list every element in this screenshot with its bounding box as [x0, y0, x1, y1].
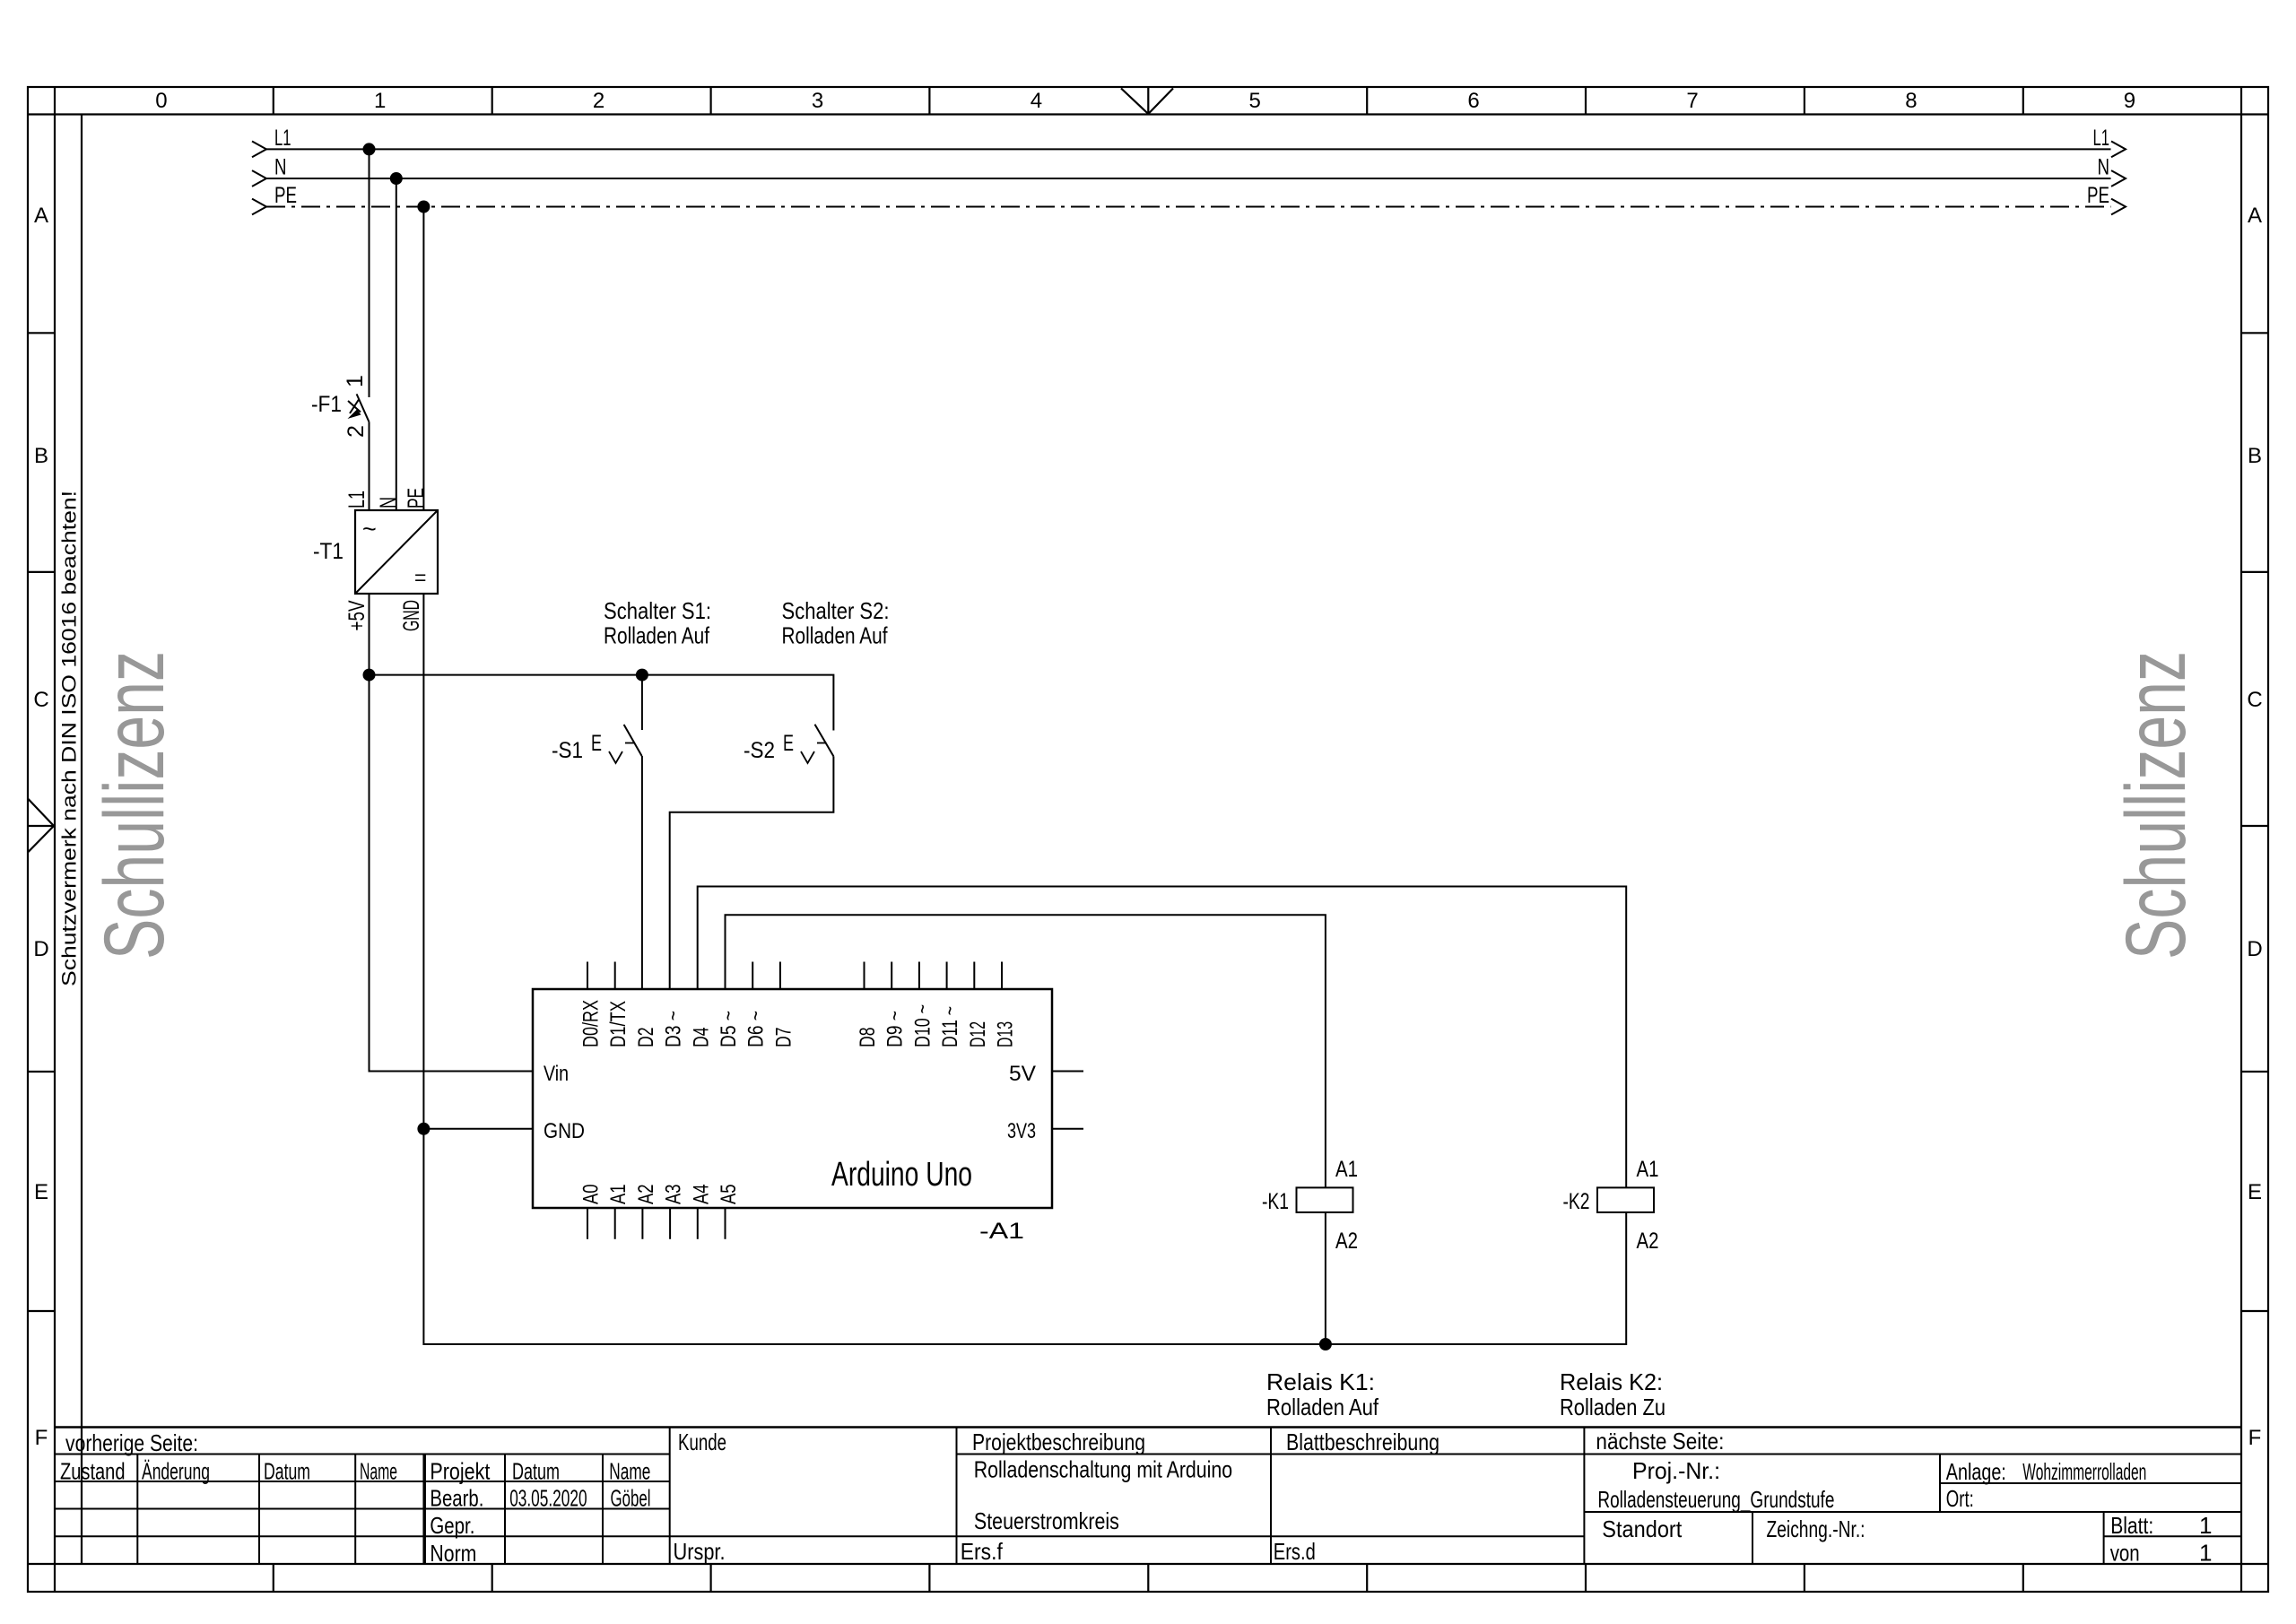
svg-text:1: 1 [2199, 1540, 2212, 1567]
svg-text:Rolladen Auf: Rolladen Auf [1266, 1394, 1379, 1420]
svg-text:1: 1 [2199, 1512, 2212, 1539]
svg-text:+5V: +5V [344, 600, 370, 630]
svg-text:E: E [34, 1180, 48, 1204]
svg-text:1: 1 [343, 375, 368, 387]
svg-text:A0: A0 [579, 1185, 604, 1205]
wire S1 to D2 [641, 756, 643, 989]
svg-text:2: 2 [593, 89, 604, 113]
svg-text:C: C [33, 688, 48, 712]
svg-text:-S2: -S2 [744, 738, 775, 763]
svg-text:D4: D4 [689, 1028, 713, 1048]
svg-text:D5 ~: D5 ~ [717, 1011, 741, 1047]
svg-text:D: D [2247, 937, 2262, 961]
annotation Schalter S2 [782, 597, 890, 649]
svg-text:E: E [591, 731, 602, 756]
svg-text:Relais K2:: Relais K2: [1560, 1368, 1663, 1395]
fuse F1 [311, 375, 369, 438]
svg-text:E: E [783, 731, 794, 756]
svg-text:Göbel: Göbel [611, 1485, 651, 1512]
svg-text:PE: PE [404, 488, 429, 508]
svg-text:A4: A4 [689, 1185, 713, 1205]
svg-text:Urspr.: Urspr. [674, 1538, 726, 1565]
svg-text:D11 ~: D11 ~ [938, 1006, 962, 1047]
junction above S1 [636, 669, 648, 682]
svg-text:5V: 5V [1009, 1062, 1036, 1086]
svg-text:Bearb.: Bearb. [430, 1485, 483, 1512]
svg-text:D1/TX: D1/TX [606, 1001, 631, 1047]
svg-text:A2: A2 [1335, 1229, 1358, 1254]
svg-text:A3: A3 [662, 1185, 686, 1205]
svg-text:Zeichng.-Nr.:: Zeichng.-Nr.: [1767, 1515, 1865, 1542]
svg-text:Projekt: Projekt [430, 1458, 491, 1485]
annotation Relais K2 [1560, 1368, 1665, 1420]
net L1 [252, 126, 2126, 157]
svg-text:=: = [414, 566, 426, 589]
svg-text:-T1: -T1 [313, 539, 344, 564]
wire L1 to F1 [369, 149, 370, 397]
svg-text:A5: A5 [717, 1185, 741, 1205]
wire +5V from T1 [369, 594, 370, 675]
wire D5 to K1 [726, 915, 1326, 1187]
svg-text:Rolladenschaltung mit Arduino: Rolladenschaltung mit Arduino [974, 1456, 1233, 1483]
svg-text:Wohzimmerrolladen: Wohzimmerrolladen [2022, 1458, 2146, 1485]
svg-text:Proj.-Nr.:: Proj.-Nr.: [1632, 1457, 1720, 1484]
svg-text:8: 8 [1905, 89, 1917, 113]
svg-text:Rolladen Auf: Rolladen Auf [604, 622, 710, 649]
wire N to T1 pin N [376, 178, 401, 510]
svg-text:7: 7 [1686, 89, 1698, 113]
svg-text:Datum: Datum [512, 1458, 560, 1485]
svg-text:D8: D8 [856, 1028, 880, 1048]
svg-text:Änderung: Änderung [142, 1458, 210, 1485]
svg-text:B: B [2248, 444, 2262, 468]
junction +5V [363, 669, 376, 682]
svg-text:03.05.2020: 03.05.2020 [509, 1485, 587, 1512]
svg-text:Schalter S1:: Schalter S1: [604, 597, 711, 624]
junction N [390, 172, 403, 185]
svg-text:A1: A1 [1335, 1157, 1358, 1182]
junction L1 [363, 143, 376, 155]
svg-text:N: N [2098, 155, 2110, 180]
svg-text:A1: A1 [606, 1185, 631, 1205]
svg-text:D7: D7 [771, 1028, 796, 1048]
svg-text:9: 9 [2124, 89, 2135, 113]
wire +5V to Vin [370, 675, 534, 1072]
svg-text:D3 ~: D3 ~ [662, 1011, 686, 1047]
svg-text:Ers.f: Ers.f [961, 1538, 1004, 1565]
svg-text:-K2: -K2 [1563, 1189, 1590, 1214]
relay K2 [1563, 1157, 1659, 1254]
svg-text:A1: A1 [1637, 1157, 1659, 1182]
switch S1 [552, 675, 642, 763]
svg-text:0: 0 [155, 89, 167, 113]
junction GND [417, 1123, 430, 1135]
svg-text:D13: D13 [994, 1021, 1018, 1047]
svg-text:3V3: 3V3 [1007, 1119, 1036, 1143]
wire K1 coil to bus [1325, 1212, 1326, 1344]
svg-text:Standort: Standort [1602, 1515, 1683, 1542]
svg-text:4: 4 [1031, 89, 1042, 113]
annotation Schalter S1 [604, 597, 711, 649]
wire GND to arduino [423, 1128, 533, 1130]
svg-text:-A1: -A1 [979, 1219, 1024, 1244]
svg-text:L1: L1 [274, 126, 291, 151]
net PE [252, 183, 2126, 214]
junction K1 bottom [1319, 1338, 1332, 1350]
svg-text:Schullizenz: Schullizenz [2109, 651, 2204, 960]
svg-text:Rolladen Zu: Rolladen Zu [1560, 1394, 1665, 1420]
svg-text:C: C [2247, 688, 2262, 712]
svg-text:A2: A2 [1637, 1229, 1659, 1254]
svg-text:D9 ~: D9 ~ [883, 1011, 908, 1047]
arduino A1 [533, 962, 1083, 1245]
svg-text:5: 5 [1249, 89, 1261, 113]
transformer T1 [313, 510, 438, 631]
svg-text:3: 3 [812, 89, 823, 113]
net N [252, 155, 2126, 187]
svg-text:nächste Seite:: nächste Seite: [1596, 1428, 1724, 1455]
svg-text:F: F [35, 1426, 48, 1450]
svg-text:Anlage:: Anlage: [1946, 1458, 2006, 1485]
svg-text:Projektbeschreibung: Projektbeschreibung [972, 1429, 1145, 1455]
svg-text:GND: GND [544, 1119, 585, 1143]
svg-text:D10 ~: D10 ~ [910, 1004, 935, 1047]
svg-text:Relais K1:: Relais K1: [1266, 1368, 1375, 1395]
svg-text:B: B [34, 444, 48, 468]
junction PE [417, 201, 430, 213]
svg-text:L1: L1 [2093, 126, 2110, 151]
svg-text:L1: L1 [344, 491, 370, 508]
svg-text:-K1: -K1 [1262, 1189, 1289, 1214]
svg-text:~: ~ [362, 516, 377, 543]
svg-text:GND: GND [399, 600, 424, 631]
svg-text:1: 1 [374, 89, 386, 113]
svg-text:Steuerstromkreis: Steuerstromkreis [974, 1507, 1119, 1534]
svg-text:Zustand: Zustand [60, 1458, 126, 1485]
svg-text:D12: D12 [966, 1021, 990, 1047]
svg-text:6: 6 [1467, 89, 1479, 113]
wire GND from T1 [422, 594, 424, 1129]
relay K1 [1262, 1157, 1358, 1254]
svg-text:N: N [274, 155, 287, 180]
svg-text:Gepr.: Gepr. [430, 1512, 474, 1539]
switch S2 [744, 725, 833, 763]
svg-text:Ers.d: Ers.d [1274, 1538, 1316, 1565]
svg-text:von: von [2110, 1540, 2140, 1567]
svg-text:-F1: -F1 [311, 392, 342, 417]
svg-text:Rolladen Auf: Rolladen Auf [782, 622, 889, 649]
svg-text:A2: A2 [634, 1185, 658, 1205]
wire PE to T1 pin PE [404, 207, 429, 511]
svg-text:D: D [33, 937, 48, 961]
svg-text:Schullizenz: Schullizenz [87, 651, 182, 960]
svg-text:Vin: Vin [544, 1062, 569, 1086]
svg-text:F: F [2248, 1426, 2262, 1450]
svg-text:D6 ~: D6 ~ [744, 1011, 769, 1047]
svg-text:Blatt:: Blatt: [2110, 1512, 2153, 1539]
svg-text:Rolladensteuerung_Grundstufe: Rolladensteuerung_Grundstufe [1597, 1486, 1834, 1513]
svg-text:D2: D2 [634, 1028, 658, 1048]
svg-text:PE: PE [2087, 183, 2109, 208]
svg-text:Arduino Uno: Arduino Uno [831, 1156, 972, 1194]
annotation Relais K1 [1266, 1368, 1379, 1420]
svg-text:Schalter S2:: Schalter S2: [782, 597, 890, 624]
svg-text:PE: PE [274, 183, 297, 208]
wire D4 to K2 [698, 887, 1627, 1188]
svg-text:2: 2 [344, 425, 369, 438]
wire F1 to T1 pin L1 [344, 421, 370, 510]
svg-text:Norm: Norm [430, 1540, 476, 1567]
svg-text:D0/RX: D0/RX [579, 1000, 604, 1047]
svg-text:Kunde: Kunde [678, 1429, 726, 1455]
svg-text:E: E [2248, 1180, 2262, 1204]
svg-text:Ort:: Ort: [1946, 1485, 1974, 1512]
wire +5V rail to switches [370, 675, 834, 731]
svg-text:Schutzvermerk nach DIN ISO 160: Schutzvermerk nach DIN ISO 16016 beachte… [58, 491, 81, 986]
svg-text:Blattbeschreibung: Blattbeschreibung [1286, 1429, 1439, 1455]
svg-text:Datum: Datum [264, 1458, 310, 1485]
svg-text:A: A [2248, 204, 2262, 228]
svg-text:vorherige Seite:: vorherige Seite: [65, 1429, 198, 1456]
svg-text:A: A [34, 204, 48, 228]
svg-text:Name: Name [360, 1458, 397, 1485]
wire GND bus bottom [423, 1129, 1626, 1344]
wire S2 to D3 [670, 756, 834, 989]
svg-text:N: N [376, 497, 401, 508]
svg-text:Name: Name [609, 1458, 650, 1485]
svg-text:-S1: -S1 [552, 738, 583, 763]
